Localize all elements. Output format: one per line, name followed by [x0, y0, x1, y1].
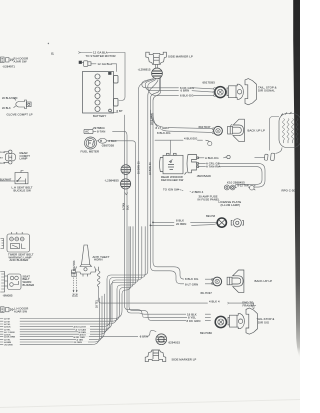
tail stop connector top round [213, 87, 226, 98]
svg-text:RPO C-50: RPO C-50 [282, 189, 296, 193]
svg-text:18 A: 18 A [0, 151, 5, 154]
svg-text:-U284971: -U284971 [2, 65, 15, 69]
svg-text:4 BLK 4: 4 BLK 4 [209, 300, 220, 304]
wire tail top dk grn [142, 79, 214, 89]
svg-text:18 B GRN: 18 B GRN [150, 113, 153, 125]
svg-text:BATTERY: BATTERY [93, 114, 106, 118]
battery B1 [83, 72, 119, 114]
svg-text:BUCKLE SW: BUCKLE SW [14, 188, 32, 192]
grommet bottom 6294015 [156, 334, 167, 345]
fan wire f8 [0, 294, 105, 339]
tail lamp housing bottom [246, 308, 257, 334]
grommet mid 1 [121, 165, 131, 176]
svg-text:A YEL: A YEL [4, 328, 11, 331]
svg-text:A BLK-DOG: A BLK-DOG [74, 326, 86, 329]
defogger grid feed wire [255, 117, 283, 158]
svg-text:-2 BRN 4: -2 BRN 4 [191, 190, 204, 194]
lh door ajar connector [1, 307, 14, 313]
wire 12ga battery feed [91, 64, 117, 72]
wire bundle vertical D [0, 79, 154, 327]
svg-text:8-LT GRN: 8-LT GRN [185, 282, 198, 286]
svg-text:DIR SIG: DIR SIG [258, 321, 269, 325]
wire backup top blk dg [153, 113, 212, 132]
svg-text:6917D53: 6917D53 [73, 260, 76, 271]
svg-text:8 BLK DG: 8 BLK DG [185, 277, 198, 281]
svg-text:-BRO5A08: -BRO5A08 [197, 174, 212, 178]
svg-text:DIR SIGNAL: DIR SIGNAL [258, 89, 275, 93]
bottom page crease [0, 400, 300, 408]
battery terminal connector [79, 61, 91, 67]
backup lamp housing panel bottom [233, 270, 244, 292]
svg-text:8 BLK: 8 BLK [109, 139, 117, 143]
defogger blk-dg end mark [226, 155, 231, 158]
wire tail bottom 3 [129, 227, 211, 321]
svg-text:6917D37: 6917D37 [199, 125, 211, 129]
grd oval [99, 138, 107, 143]
wire AC b-tan [94, 131, 128, 164]
fan wire f6 [0, 227, 133, 322]
svg-text:-L2984855: -L2984855 [105, 179, 120, 183]
svg-text:AND BUZZER: AND BUZZER [10, 258, 29, 262]
svg-text:LAMP: LAMP [20, 157, 28, 161]
svg-text:8 BLK-DG: 8 BLK-DG [157, 131, 171, 135]
rear compt lamp [4, 150, 16, 164]
svg-text:8-12 TAN: 8-12 TAN [238, 185, 249, 188]
wire backup top lt grn [151, 110, 212, 129]
license plate lamp circles 2988455 [224, 185, 235, 190]
label gaps [3, 127, 205, 346]
backup lamp socket rect bottom [227, 277, 232, 285]
fan left edge labels [4, 318, 15, 347]
wire ground run [99, 287, 251, 303]
anti theft connector stack [72, 273, 77, 293]
anti theft coil [97, 267, 100, 288]
svg-text:7M: 7M [76, 293, 79, 297]
svg-text:6 BRN: 6 BRN [181, 89, 190, 93]
backup lamp cup top [233, 125, 244, 135]
svg-text:A TAN: A TAN [122, 203, 125, 210]
wire tail top brn [145, 79, 213, 92]
svg-text:S: S [51, 51, 54, 56]
stray marks [48, 43, 54, 56]
svg-text:FRAME: FRAME [243, 304, 253, 308]
svg-text:(ILLUM LAMP): (ILLUM LAMP) [221, 203, 241, 207]
junction dots [152, 222, 154, 224]
fuel meter gauge [85, 137, 97, 149]
rear window defogger switch [160, 153, 183, 174]
ac box [84, 129, 93, 133]
svg-text:6917D80: 6917D80 [200, 331, 212, 335]
wire 6917M 20 brn [151, 224, 217, 226]
fan wire f9 [0, 296, 102, 342]
backup connector top round [212, 126, 222, 135]
wire bundle vertical I [153, 78, 213, 279]
svg-text:6917DB5: 6917DB5 [203, 81, 216, 85]
svg-text:4 BLK/DG: 4 BLK/DG [184, 136, 197, 140]
svg-text:BLK/WHT: BLK/WHT [0, 178, 12, 181]
svg-text:A TM: A TM [4, 320, 9, 323]
svg-text:IN FUSE PANEL: IN FUSE PANEL [198, 197, 220, 201]
svg-text:SIDE MARKER LP: SIDE MARKER LP [172, 357, 197, 361]
svg-text:A TM: A TM [4, 318, 9, 321]
svg-text:TO IGN SW: TO IGN SW [163, 187, 179, 191]
grommet mid 2 L2984855 [121, 179, 131, 196]
svg-text:TO STARTER MOTOR: TO STARTER MOTOR [86, 54, 116, 58]
svg-text:20 BRN: 20 BRN [176, 222, 186, 226]
svg-text:A DK GRN: A DK GRN [4, 336, 15, 339]
svg-text:8 DK GRN: 8 DK GRN [187, 319, 201, 323]
backup lamp housing panel top [234, 119, 245, 141]
tail lamp socket bottom [228, 314, 244, 329]
svg-text:A BLK-DG: A BLK-DG [205, 156, 219, 160]
svg-text:6 BLK-DG: 6 BLK-DG [180, 94, 194, 98]
backup connector bottom round [211, 277, 221, 286]
svg-text:A TU CAN: A TU CAN [76, 328, 87, 331]
svg-text:A BLK: A BLK [4, 326, 11, 329]
wire license b-12 tan [235, 187, 249, 189]
svg-text:69-7D37: 69-7D37 [201, 291, 213, 295]
svg-text:20 ORN: 20 ORN [4, 345, 13, 347]
svg-text:↑L296915: ↑L296915 [138, 67, 151, 71]
wire defogger sw loop tan [198, 167, 262, 188]
tail connector bottom round [215, 316, 226, 327]
svg-text:A TAN-RIA: A TAN-RIA [206, 165, 220, 169]
wire tail top blk-dg [148, 80, 214, 96]
ground symbol frame [228, 302, 257, 308]
defogger grid connectors [264, 153, 274, 161]
svg-text:SIDE MARKER LP: SIDE MARKER LP [168, 55, 193, 59]
wire bundle vertical H [151, 78, 213, 284]
fan line 9 [0, 330, 156, 336]
svg-text:20 B: 20 B [0, 163, 5, 165]
svg-text:-2987D58: -2987D58 [101, 143, 114, 147]
side marker lamp bottom [145, 350, 166, 362]
wire 6917M b blk [153, 221, 217, 223]
od circle on blk dg wire [206, 140, 212, 146]
svg-text:BLK: BLK [126, 205, 129, 210]
wire defogger sw a blk-dg [198, 156, 226, 159]
connector 6917M round dark [217, 218, 226, 227]
svg-text:20 BLK/ORN: 20 BLK/ORN [2, 97, 18, 100]
svg-text:-8M085: -8M085 [3, 293, 13, 297]
svg-text:DEFOGGER SW: DEFOGGER SW [161, 178, 184, 182]
svg-text:18 TEL: 18 TEL [96, 299, 99, 308]
svg-text:GLOVE COMPT LP: GLOVE COMPT LP [7, 113, 33, 117]
wire bundle vertical F [0, 227, 145, 332]
right page edge shadow [293, 0, 300, 358]
wire bundle vertical G [0, 80, 158, 334]
fan wire f10 [0, 298, 100, 345]
rotated wire labels [73, 113, 154, 308]
starter wire arrow [78, 52, 80, 54]
svg-text:A TEL: A TEL [4, 339, 11, 342]
connector 6917M mate [231, 219, 243, 227]
svg-text:A TAN: A TAN [77, 339, 84, 342]
svg-text:-8 BRN: -8 BRN [139, 336, 148, 339]
svg-text:18 BRN 30: 18 BRN 30 [149, 162, 152, 175]
svg-text:8-TAN: 8-TAN [97, 129, 105, 133]
svg-text:M DK CAN: M DK CAN [74, 336, 85, 339]
defogger grid rpo c50 [279, 112, 301, 148]
text labels main [0, 51, 296, 362]
svg-text:A TEL: A TEL [4, 323, 11, 326]
wire to ign dashed [178, 189, 191, 191]
svg-text:AJAR SW: AJAR SW [14, 60, 27, 64]
svg-text:8 LT GRN: 8 LT GRN [156, 126, 169, 130]
rh door ajar connector [1, 57, 14, 63]
tail lamp housing top [245, 79, 256, 105]
svg-text:FUEL METER: FUEL METER [81, 149, 100, 153]
wire battery cable down [111, 113, 125, 165]
svg-text:6 BT: 6 BT [117, 109, 123, 113]
svg-text:6294015: 6294015 [169, 340, 181, 344]
wire bundle vertical E [0, 227, 142, 330]
svg-text:BACK-UP LP: BACK-UP LP [255, 279, 273, 283]
wire tail bottom 1 [125, 164, 211, 314]
tail lamp socket top [227, 84, 243, 99]
svg-text:20 BRN 30: 20 BRN 30 [138, 161, 141, 174]
wire defogger sw loop crl [198, 163, 265, 187]
wire fuel meter b blk [0, 141, 136, 324]
lh seat belt buckle sw [0, 171, 28, 184]
defogger sw right bracket connector [185, 155, 199, 175]
svg-text:20 ORN: 20 ORN [74, 342, 83, 344]
svg-text:A BRN: A BRN [4, 341, 11, 344]
fan wire f7 [0, 227, 131, 319]
svg-text:6917M: 6917M [206, 214, 216, 218]
svg-text:HORN: HORN [94, 258, 103, 262]
svg-text:BACK UP LP: BACK UP LP [248, 128, 265, 132]
svg-text:AC: AC [85, 130, 89, 134]
timer seat belt warning box [1, 232, 30, 252]
backup lamp socket rect top [228, 124, 233, 134]
license A terminal [250, 185, 256, 190]
wire 4 blk dg defogger [155, 140, 203, 154]
svg-text:BUZZER: BUZZER [23, 283, 35, 287]
wire tail bottom 2 [127, 164, 211, 317]
side marker lamp top [146, 52, 167, 68]
backup lamp cup bottom [232, 276, 243, 286]
wire 12ga to starter motor [80, 53, 125, 101]
anti theft lever [72, 245, 98, 277]
grommet top L296915 [152, 68, 163, 79]
seat belt warn buzzer box [0, 272, 21, 293]
svg-text:20 BLK: 20 BLK [2, 107, 11, 110]
svg-text:AJAR SW: AJAR SW [14, 310, 27, 314]
fan mid labels [74, 326, 87, 345]
glove compt lamp [14, 98, 32, 109]
svg-text:12 GA BLA: 12 GA BLA [98, 62, 113, 66]
